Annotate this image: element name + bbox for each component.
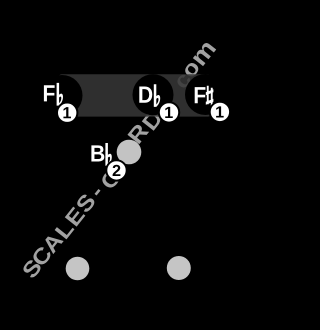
watermark letter C	[33, 247, 50, 264]
watermark letter L	[55, 227, 75, 239]
note circle Bb	[88, 133, 129, 174]
label F sharp letter F	[195, 87, 206, 103]
badge 2 on Bb	[106, 160, 126, 180]
label Db letter D	[139, 87, 152, 103]
badge 1 on F sharp	[210, 102, 230, 122]
sharp sign of F sharp	[206, 86, 214, 107]
watermark letter R	[127, 125, 149, 144]
watermark letter S	[77, 195, 94, 212]
watermark letter S	[23, 260, 40, 277]
note circle Fb	[42, 75, 83, 116]
watermark letter o	[185, 63, 198, 76]
open string dot right	[167, 256, 191, 280]
watermark letter D	[142, 112, 160, 131]
watermark letter c	[177, 75, 190, 88]
badge 1 on Fb	[57, 103, 77, 123]
finger dot behind Bb (partially hidden)	[117, 140, 142, 165]
watermark letter E	[65, 207, 86, 227]
watermark letter hyphen	[95, 189, 101, 196]
flat sign of Bb	[105, 143, 111, 166]
watermark letter C	[102, 170, 119, 187]
label Fb letter F	[44, 85, 55, 101]
watermark letter m	[193, 43, 216, 66]
label Bb letter B	[91, 145, 104, 161]
open string dot left	[66, 257, 90, 281]
flat sign of Fb	[57, 83, 63, 106]
flat sign of Db	[154, 84, 160, 107]
watermark letter S	[151, 102, 168, 119]
badge 1 on Db	[159, 102, 179, 122]
note circle F sharp	[185, 74, 226, 115]
watermark letter O	[119, 142, 136, 159]
note circle Db	[133, 74, 174, 115]
fret bar	[58, 74, 212, 116]
watermark letter A	[45, 236, 63, 254]
watermark letter dot	[167, 95, 172, 100]
